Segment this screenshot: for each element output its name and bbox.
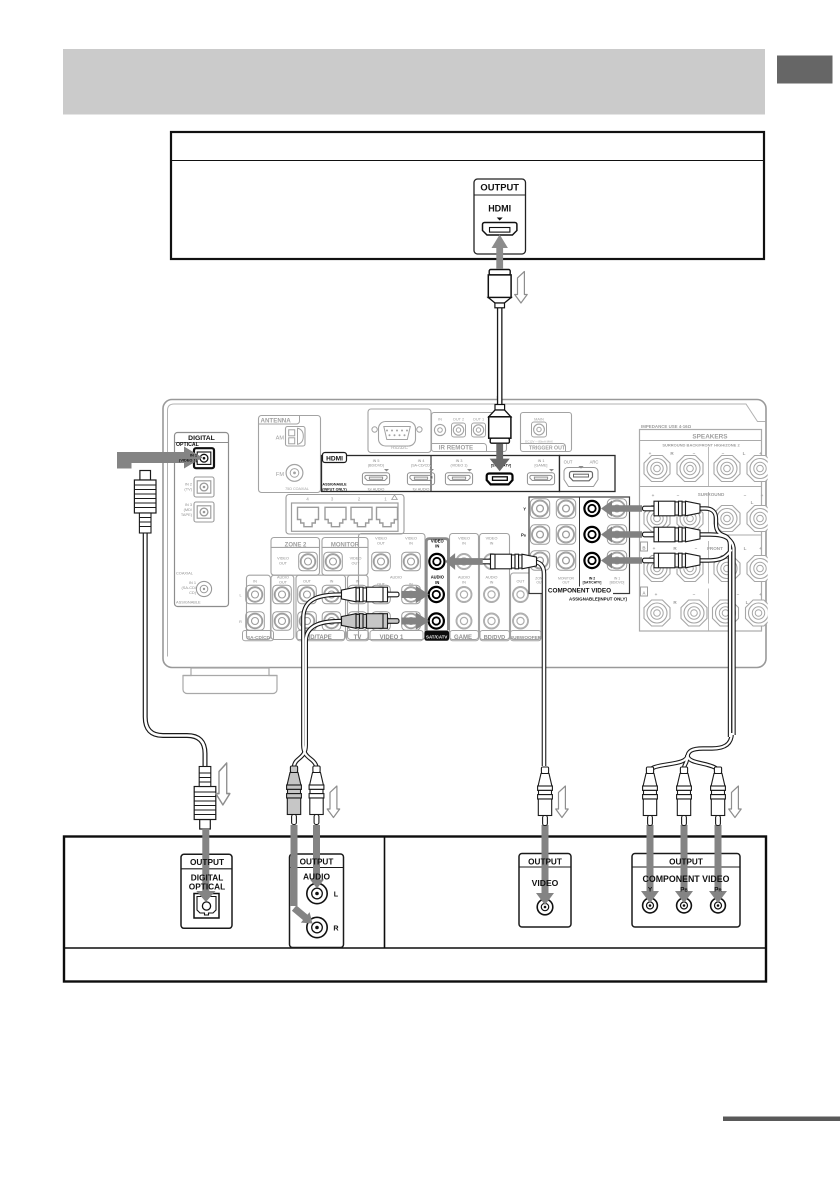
svg-text:TAPE): TAPE) bbox=[181, 512, 193, 517]
svg-text:ARC: ARC bbox=[590, 459, 599, 464]
svg-text:OPTICAL: OPTICAL bbox=[189, 881, 225, 891]
svg-text:AUDIO: AUDIO bbox=[458, 576, 470, 580]
svg-text:OUT: OUT bbox=[377, 541, 386, 545]
svg-text:PB: PB bbox=[680, 887, 688, 894]
svg-text:SPEAKERS: SPEAKERS bbox=[692, 434, 728, 441]
svg-text:TRIGGER OUT: TRIGGER OUT bbox=[529, 445, 566, 451]
svg-text:Y: Y bbox=[523, 507, 526, 512]
svg-text:COAXIAL: COAXIAL bbox=[176, 571, 194, 576]
svg-text:OUT: OUT bbox=[564, 459, 573, 464]
svg-text:SAT/CATV: SAT/CATV bbox=[426, 634, 447, 639]
svg-text:VIDEO: VIDEO bbox=[458, 537, 470, 541]
svg-text:IN: IN bbox=[356, 580, 360, 584]
svg-text:ASSIGNABLE(INPUT ONLY): ASSIGNABLE(INPUT ONLY) bbox=[569, 597, 627, 602]
svg-text:IN: IN bbox=[435, 580, 439, 585]
svg-text:OUT: OUT bbox=[351, 561, 360, 565]
svg-text:AUDIO: AUDIO bbox=[277, 576, 289, 580]
svg-text:PB: PB bbox=[521, 533, 527, 538]
svg-text:IN: IN bbox=[253, 580, 257, 584]
svg-text:FM: FM bbox=[276, 472, 284, 478]
svg-text:DC12V ⎓ 80mA MAX: DC12V ⎓ 80mA MAX bbox=[525, 440, 553, 444]
svg-text:+: + bbox=[653, 546, 656, 551]
svg-text:IN: IN bbox=[438, 417, 442, 422]
svg-text:AUDIO: AUDIO bbox=[485, 576, 497, 580]
svg-text:−: − bbox=[677, 493, 680, 498]
svg-text:IN: IN bbox=[462, 581, 466, 585]
svg-text:[GAME]: [GAME] bbox=[535, 463, 548, 467]
svg-text:−: − bbox=[744, 493, 747, 498]
svg-text:R: R bbox=[239, 620, 242, 624]
svg-text:SUBWOOFER: SUBWOOFER bbox=[510, 635, 542, 640]
svg-text:(INPUT ONLY): (INPUT ONLY) bbox=[322, 487, 347, 491]
svg-text:VIDEO: VIDEO bbox=[375, 537, 387, 541]
svg-text:MAIN: MAIN bbox=[534, 417, 544, 422]
svg-text:MD/TAPE: MD/TAPE bbox=[305, 635, 332, 641]
svg-text:1: 1 bbox=[384, 497, 387, 502]
svg-text:−: − bbox=[737, 592, 740, 597]
svg-text:COMPONENT VIDEO: COMPONENT VIDEO bbox=[643, 874, 730, 884]
svg-text:(BD/DVD): (BD/DVD) bbox=[368, 463, 384, 467]
svg-text:+: + bbox=[655, 592, 658, 597]
svg-text:IMPEDANCE USE 4-16Ω: IMPEDANCE USE 4-16Ω bbox=[641, 424, 692, 429]
svg-text:MONITOR: MONITOR bbox=[331, 543, 360, 549]
svg-text:PR: PR bbox=[714, 887, 722, 894]
svg-text:L: L bbox=[743, 451, 746, 456]
svg-text:OUTPUT: OUTPUT bbox=[190, 857, 224, 867]
svg-text:−: − bbox=[693, 592, 696, 597]
svg-text:GAME: GAME bbox=[454, 635, 472, 641]
svg-text:IR REMOTE: IR REMOTE bbox=[439, 445, 473, 452]
svg-text:OPTICAL: OPTICAL bbox=[176, 442, 200, 448]
svg-text:SURROUND: SURROUND bbox=[698, 492, 725, 497]
svg-text:FRONT: FRONT bbox=[707, 546, 723, 551]
svg-text:[BD/DVD]: [BD/DVD] bbox=[610, 581, 625, 585]
svg-text:L: L bbox=[334, 890, 339, 899]
svg-text:OUT: OUT bbox=[279, 581, 288, 585]
svg-text:RS232C: RS232C bbox=[391, 445, 408, 450]
svg-text:SURROUND BACK/FRONT HIGH/ZONE: SURROUND BACK/FRONT HIGH/ZONE 2 bbox=[662, 443, 740, 448]
svg-text:for AUDIO: for AUDIO bbox=[368, 488, 385, 492]
svg-text:(TV): (TV) bbox=[184, 487, 192, 492]
svg-text:SA-CD/CD: SA-CD/CD bbox=[247, 635, 271, 640]
svg-text:HDMI: HDMI bbox=[488, 204, 511, 214]
svg-text:ASSIGNABLE: ASSIGNABLE bbox=[322, 483, 347, 487]
svg-text:CD): CD) bbox=[189, 590, 197, 595]
svg-text:OUT: OUT bbox=[516, 580, 525, 584]
svg-text:+: + bbox=[759, 546, 762, 551]
svg-text:L: L bbox=[239, 594, 241, 598]
svg-text:VIDEO: VIDEO bbox=[350, 557, 362, 561]
svg-text:IN: IN bbox=[462, 541, 466, 545]
svg-text:TV: TV bbox=[354, 635, 362, 641]
svg-text:VIDEO: VIDEO bbox=[532, 878, 559, 888]
svg-text:AUDIO: AUDIO bbox=[303, 872, 330, 882]
svg-text:OUT 2: OUT 2 bbox=[453, 417, 464, 422]
svg-text:3: 3 bbox=[331, 497, 334, 502]
svg-text:IN 4: IN 4 bbox=[418, 459, 425, 463]
svg-text:COMPONENT VIDEO: COMPONENT VIDEO bbox=[548, 588, 611, 595]
svg-text:IN: IN bbox=[490, 541, 494, 545]
svg-text:75Ω COAXIAL: 75Ω COAXIAL bbox=[285, 487, 309, 491]
svg-text:+: + bbox=[652, 493, 655, 498]
svg-text:OUTPUT: OUTPUT bbox=[480, 182, 519, 193]
svg-text:L: L bbox=[751, 500, 754, 505]
svg-text:+: + bbox=[761, 493, 764, 498]
svg-text:R: R bbox=[333, 924, 339, 933]
svg-text:VIDEO: VIDEO bbox=[486, 537, 498, 541]
svg-text:IN: IN bbox=[409, 583, 413, 587]
svg-text:ZONE 2: ZONE 2 bbox=[285, 543, 307, 549]
svg-text:OUTPUT: OUTPUT bbox=[669, 858, 703, 867]
svg-text:2: 2 bbox=[358, 497, 361, 502]
svg-text:IN 3: IN 3 bbox=[456, 459, 463, 463]
svg-text:(SA-CD/CD): (SA-CD/CD) bbox=[411, 463, 431, 467]
svg-text:VIDEO: VIDEO bbox=[431, 538, 445, 543]
svg-text:OUTPUT: OUTPUT bbox=[528, 858, 562, 867]
svg-text:ANTENNA: ANTENNA bbox=[261, 417, 292, 424]
svg-text:VIDEO: VIDEO bbox=[405, 537, 417, 541]
svg-text:IN: IN bbox=[409, 541, 413, 545]
svg-text:VIDEO: VIDEO bbox=[277, 557, 289, 561]
svg-text:OUT: OUT bbox=[279, 561, 288, 565]
svg-text:HDMI: HDMI bbox=[326, 456, 343, 463]
svg-text:L: L bbox=[744, 546, 747, 551]
svg-text:OUTPUT: OUTPUT bbox=[300, 858, 334, 867]
svg-text:[SAT/CATV]: [SAT/CATV] bbox=[583, 581, 602, 585]
svg-text:AUDIO: AUDIO bbox=[431, 575, 445, 580]
svg-text:ASSIGNABLE: ASSIGNABLE bbox=[176, 600, 201, 605]
svg-text:VIDEO 1: VIDEO 1 bbox=[380, 635, 404, 641]
svg-text:OUT 1: OUT 1 bbox=[473, 417, 484, 422]
svg-text:+: + bbox=[759, 592, 762, 597]
svg-text:IN: IN bbox=[490, 581, 494, 585]
svg-text:IN: IN bbox=[330, 580, 334, 584]
svg-text:(VIDEO 1): (VIDEO 1) bbox=[450, 463, 467, 467]
svg-text:IN 5: IN 5 bbox=[373, 459, 380, 463]
svg-text:AM: AM bbox=[276, 435, 285, 441]
svg-text:IN 1: IN 1 bbox=[538, 459, 545, 463]
svg-text:OUT: OUT bbox=[377, 583, 386, 587]
svg-text:AUDIO: AUDIO bbox=[390, 576, 402, 580]
svg-text:OUT: OUT bbox=[562, 581, 569, 585]
svg-text:BD/DVD: BD/DVD bbox=[484, 635, 505, 641]
svg-text:for AUDIO: for AUDIO bbox=[413, 488, 430, 492]
svg-text:(VIDEO 1): (VIDEO 1) bbox=[179, 458, 198, 463]
svg-text:IN: IN bbox=[435, 544, 439, 549]
svg-text:4: 4 bbox=[306, 497, 309, 502]
svg-text:Y: Y bbox=[648, 887, 653, 894]
svg-text:B: B bbox=[642, 546, 645, 551]
svg-text:−: − bbox=[695, 546, 698, 551]
svg-text:OUT: OUT bbox=[303, 580, 312, 584]
